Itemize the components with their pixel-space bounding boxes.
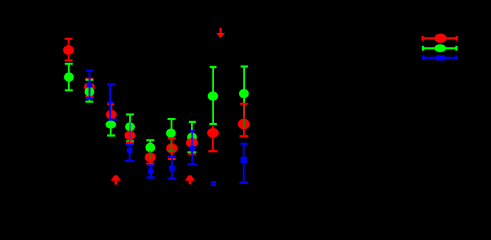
cluster 2 green error bar [85, 80, 93, 102]
cluster 1 green error bar [65, 64, 73, 91]
cluster 9 blue marker [241, 157, 247, 163]
cluster 4 green marker [125, 122, 135, 131]
legend green entry [423, 44, 456, 52]
cluster 5 green stem overlay in red marker [149, 152, 151, 159]
cluster 5 blue marker [148, 169, 153, 174]
cluster 6 green marker [166, 129, 176, 138]
cluster 9 blue error bar [239, 144, 248, 183]
cluster 6 blue error bar [167, 156, 176, 178]
cluster 7 green error bar [187, 122, 196, 152]
cluster 7 red error bar [188, 140, 196, 154]
cluster 2 blue marker [87, 83, 93, 88]
cluster 2 blue error bar [86, 71, 94, 99]
cluster 9 red marker [238, 119, 250, 130]
cluster 1 red marker [63, 45, 74, 55]
cluster 9 green marker [239, 89, 249, 98]
legend blue entry [423, 55, 456, 60]
cluster 9 green error bar [241, 67, 248, 117]
cluster 2 red error bar [85, 79, 93, 97]
cluster 4 green error bar [126, 114, 134, 141]
cluster 5 red error bar [146, 151, 154, 164]
cluster 5 green error bar [146, 140, 154, 152]
red upper-limit arrow (bottom left) [111, 175, 121, 184]
cluster 8 green marker [208, 91, 218, 100]
cluster 7 red marker [186, 138, 198, 148]
cluster 9 red error bar [240, 104, 249, 137]
cluster 3 red error bar [107, 104, 114, 115]
cluster 3 green error bar [107, 125, 115, 136]
cluster 6 red marker [166, 143, 177, 153]
legend red entry [423, 34, 457, 43]
cluster 2 green marker [85, 87, 95, 96]
cluster 6 green stem overlay in red marker [168, 144, 175, 152]
red upper-limit arrow (bottom, cluster 7) [185, 175, 195, 184]
cluster 9 green stem overlay in red marker [243, 120, 245, 128]
cluster 5 red marker [145, 152, 156, 162]
cluster 6 blue marker [169, 165, 175, 170]
cluster 6 red error bar [168, 138, 176, 159]
cluster 3 red marker [106, 110, 117, 120]
cluster 1 red error bar [65, 39, 73, 61]
cluster 8 red marker [207, 128, 219, 138]
cluster 7 blue bar overlay across markers [191, 133, 193, 146]
cluster 3 green marker [106, 121, 117, 129]
cluster 8 red error bar [208, 126, 217, 151]
cluster 7 blue error bar [188, 131, 197, 164]
cluster 3 blue error bar [107, 85, 117, 120]
cluster 4 blue bar overlay across markers [129, 123, 131, 141]
cluster 7 green marker [187, 133, 197, 142]
cluster 5 green marker [145, 143, 155, 152]
cluster 8 green error bar [209, 67, 216, 124]
cluster 6 green error bar [168, 119, 176, 151]
cluster 7 blue marker [190, 146, 196, 151]
cluster 4 red marker [124, 131, 135, 141]
cluster 8 blue limit marker [211, 181, 216, 186]
cluster 5 blue error bar [146, 165, 155, 177]
cluster 4 red error bar [126, 130, 134, 143]
cluster 1 green marker [64, 72, 74, 81]
cluster 4 blue error bar [125, 145, 135, 161]
cluster 2 red marker [84, 82, 95, 92]
cluster 4 blue marker [127, 148, 132, 153]
red downward arrow (top) [216, 28, 225, 39]
